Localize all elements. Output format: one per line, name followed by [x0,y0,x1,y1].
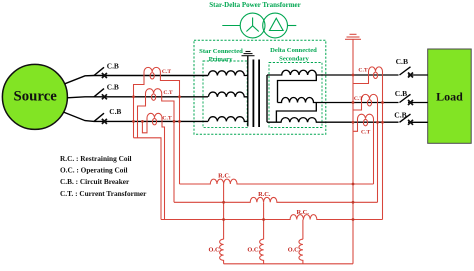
wire phase A source feeder [65,76,94,84]
wire RC2 tap [263,202,265,239]
CT1 secondary lead left [134,76,145,138]
svg-text:C.T: C.T [162,69,171,75]
breaker CB5 right blade [400,94,411,102]
breaker CB1 X contact [102,73,107,78]
CT4 right current transformer [369,67,383,75]
operating coil OC1 [220,239,224,264]
breaker CB1 left blade [94,67,104,75]
star winding L1 [208,71,247,76]
wire left CT common collector [134,138,162,220]
svg-text:C.B: C.B [109,107,121,116]
svg-text:O.C.: O.C. [208,247,221,254]
svg-text:R.C.: R.C. [258,191,271,198]
svg-text:C.T: C.T [358,68,367,74]
breaker CB6 right blade [400,114,411,122]
delta secondary dashed box [269,63,322,128]
CT1 secondary lead right [160,76,179,185]
breaker CB4 right blade [400,67,411,75]
svg-text:Star Connected: Star Connected [199,48,243,55]
wire phase B to load [408,102,428,104]
star winding L3 [208,117,247,122]
CT4 secondary lead right [382,75,384,220]
CT2 left current transformer [146,89,162,97]
svg-text:C.B: C.B [107,82,119,91]
delta link Z1 [278,75,317,103]
ground star neutral [242,52,255,56]
CT4 secondary lead left [353,75,369,84]
CT2 secondary lead left [138,97,146,138]
svg-text:Secondary: Secondary [279,56,309,63]
wire phase B main left [94,96,208,98]
wire phase A main left [94,75,208,77]
svg-text:C.T: C.T [162,116,171,122]
wire phase C source feeder [64,112,94,121]
svg-text:Load: Load [436,90,463,104]
CT3 secondary loop [142,121,147,132]
wire phase C main left [94,120,208,122]
CT5 right current transformer [362,94,378,102]
svg-text:O.C. : Operating Coil: O.C. : Operating Coil [60,165,128,174]
wire relay bottom bus [224,263,353,265]
CT3 left current transformer [147,113,162,121]
star primary dashed box [203,61,247,127]
transformer core [252,60,254,128]
transformer symbol T1 [222,13,296,38]
delta left bus [266,75,268,122]
svg-text:O.C.: O.C. [247,247,260,254]
wire phase B source feeder [67,97,94,98]
svg-text:C.B: C.B [394,110,406,119]
svg-text:C.B: C.B [107,61,119,70]
CT6 right current transformer [358,114,374,122]
svg-text:O.C.: O.C. [288,247,301,254]
breaker CB3 left blade [94,113,104,121]
svg-text:C.T: C.T [361,130,370,136]
svg-text:Delta Connected: Delta Connected [270,47,317,54]
delta winding L6 [267,118,399,123]
svg-text:C.B. : Circuit Breaker: C.B. : Circuit Breaker [60,177,130,186]
load block [428,49,472,143]
svg-text:Star-Delta Power Transformer: Star-Delta Power Transformer [209,1,301,9]
delta link Z2 [276,103,316,123]
wire red common earth bus [352,39,354,263]
breaker CB6 X contact [408,120,413,125]
svg-text:R.C. : Restraining Coil: R.C. : Restraining Coil [60,154,132,163]
svg-text:C.B: C.B [396,57,408,66]
wire RC1 tap [223,184,225,239]
source generator [2,64,67,129]
restraining coil RC3 [161,215,383,220]
breaker CB2 X contact [102,94,107,99]
CT5 secondary lead left [353,103,362,111]
svg-text:R.C.: R.C. [218,173,231,180]
wire phase A to load [408,74,428,76]
breaker CB2 left blade [94,89,104,97]
CT2 secondary lead right [162,97,174,203]
junction dots red [132,74,384,221]
restraining coil RC1 [180,179,374,184]
CT6 secondary lead left [353,122,358,131]
svg-text:C.T: C.T [163,90,172,96]
star winding L2 [208,92,247,97]
svg-text:Source: Source [14,89,58,105]
svg-text:R.C.: R.C. [296,209,309,216]
svg-text:C.T: C.T [354,96,363,102]
CT1 left current transformer [144,67,160,75]
breaker CB3 X contact [102,119,107,124]
wire phase C to load [408,121,428,123]
restraining coil RC2 [174,197,378,202]
breaker CB5 X contact [408,100,413,105]
svg-text:Primary: Primary [209,56,234,63]
wire RC3 tap [302,220,304,240]
delta winding L4 [267,70,399,75]
CT6 secondary lead right [373,122,375,184]
delta winding L5 [278,98,399,103]
outer dashed box [194,40,326,134]
CT3 secondary lead right [162,121,165,219]
operating coil OC3 [299,239,303,264]
breaker CB4 X contact [408,73,413,78]
CT5 secondary lead right [377,103,379,203]
star neutral bus [247,56,249,126]
operating coil OC2 [260,239,264,264]
svg-text:C.B: C.B [395,89,407,98]
ground symbol right red [350,33,357,35]
svg-text:C.T. : Current Transformer: C.T. : Current Transformer [60,189,147,198]
